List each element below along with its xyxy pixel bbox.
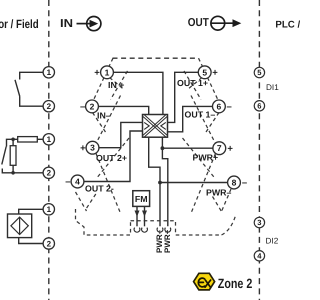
svg-text:DI2: DI2 [266,237,279,246]
svg-text:2: 2 [90,101,95,111]
svg-text:DI1: DI1 [266,83,279,92]
svg-text:1: 1 [47,68,52,77]
svg-text:4: 4 [75,177,80,187]
svg-text:+: + [94,68,100,79]
svg-text:+: + [212,68,218,79]
svg-text:FM: FM [135,194,148,204]
svg-text:IN–: IN– [97,111,111,121]
svg-text:3: 3 [257,218,261,227]
svg-text:–: – [65,177,70,188]
svg-text:IN +: IN + [108,80,124,90]
svg-text:2: 2 [47,102,52,111]
svg-text:2: 2 [47,169,52,178]
svg-text:5: 5 [202,67,207,77]
svg-text:–: – [80,102,85,113]
svg-text:1: 1 [47,205,52,214]
svg-text:PLC / DCS: PLC / DCS [275,19,300,30]
svg-text:–: – [242,178,247,189]
svg-text:or / Field: or / Field [0,17,39,31]
svg-text:3: 3 [90,143,95,153]
svg-text:+: + [227,143,233,154]
svg-text:IN: IN [60,18,73,30]
svg-text:6: 6 [257,102,261,111]
svg-text:6: 6 [217,101,222,111]
svg-text:Zone 2: Zone 2 [218,276,253,291]
svg-text:1: 1 [47,135,52,144]
svg-text:8: 8 [232,178,237,188]
svg-text:PWR+: PWR+ [163,229,172,253]
svg-text:–: – [226,102,231,113]
svg-text:1: 1 [105,67,110,77]
svg-text:PWR+: PWR+ [193,153,219,163]
svg-text:PWR–: PWR– [206,188,232,198]
svg-text:+: + [80,143,86,154]
svg-text:OUT 1–: OUT 1– [185,110,216,120]
svg-text:OUT 2-: OUT 2- [85,184,114,194]
svg-text:OUT: OUT [188,17,209,29]
svg-text:2: 2 [47,239,52,248]
svg-text:OUT 1+: OUT 1+ [177,78,208,88]
svg-text:OUT 2+: OUT 2+ [96,153,127,163]
